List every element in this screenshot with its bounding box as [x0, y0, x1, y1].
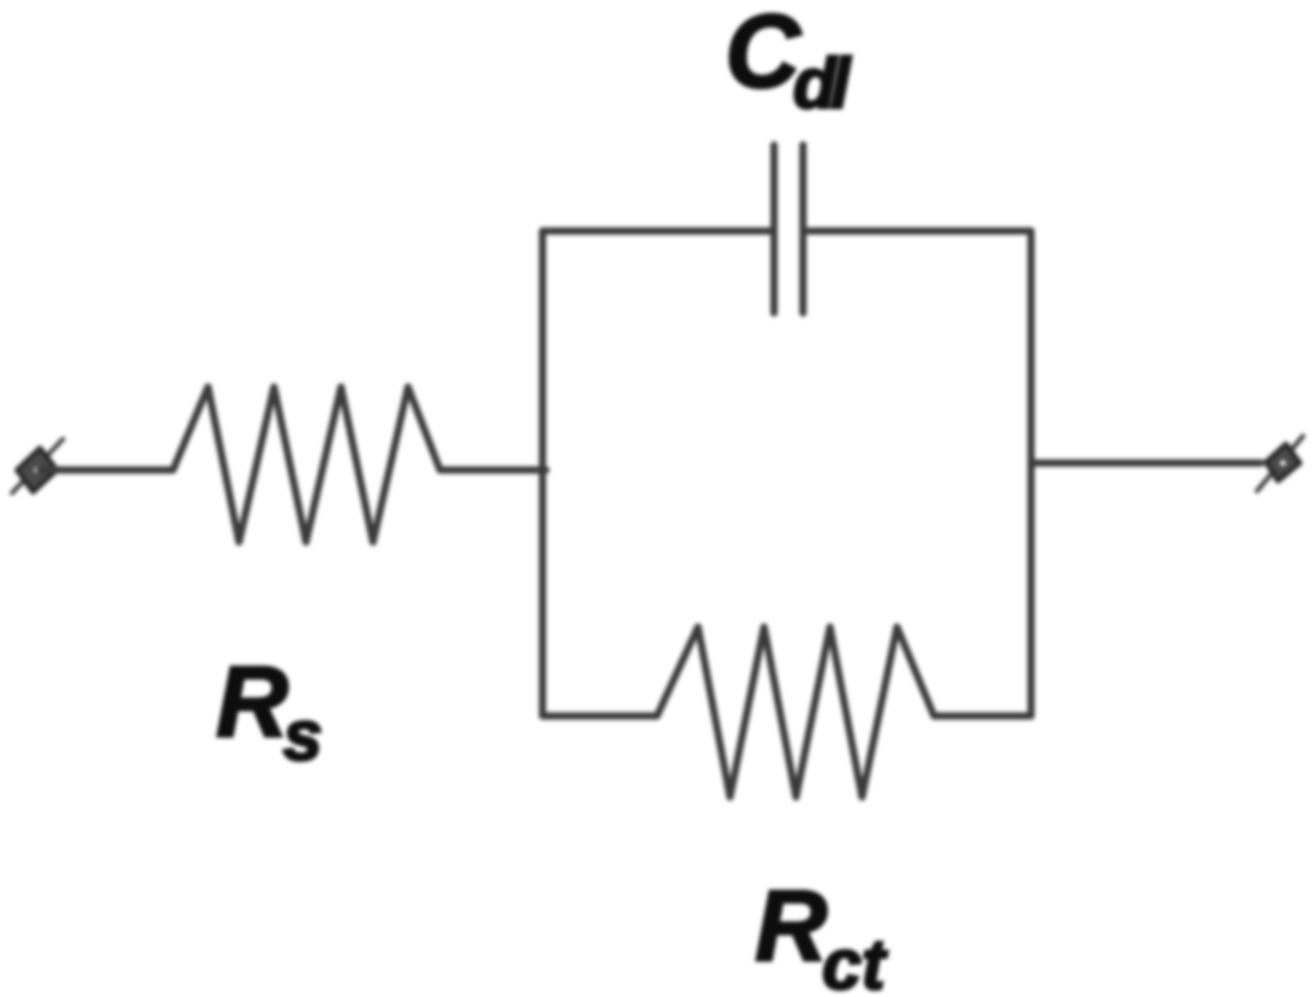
node B (right junction vertical of parallel branch)	[1027, 231, 1034, 716]
label R_s	[216, 646, 323, 776]
label R_ct	[755, 870, 888, 997]
wire top branch right	[803, 227, 1031, 234]
svg-text:R: R	[755, 870, 827, 982]
wire R_s to node A	[440, 466, 546, 473]
wire right lead	[1031, 459, 1261, 466]
capacitor C_dl	[774, 145, 803, 313]
svg-text:ct: ct	[822, 926, 888, 997]
resistor R_s	[173, 387, 440, 542]
svg-text:dl: dl	[793, 45, 851, 124]
node A (left junction vertical of parallel branch)	[539, 231, 546, 716]
svg-text:R: R	[216, 646, 288, 758]
wire left lead	[40, 466, 173, 473]
svg-text:C: C	[725, 0, 802, 110]
svg-text:s: s	[283, 697, 323, 776]
wire bottom branch left	[543, 712, 658, 719]
wire bottom branch right	[934, 712, 1031, 719]
terminal arrow (right electrode lead)	[1257, 436, 1303, 491]
label C_dl	[725, 0, 851, 124]
wire top branch left	[543, 227, 775, 234]
terminal arrow (left electrode lead)	[12, 439, 63, 493]
resistor R_ct	[657, 627, 934, 797]
